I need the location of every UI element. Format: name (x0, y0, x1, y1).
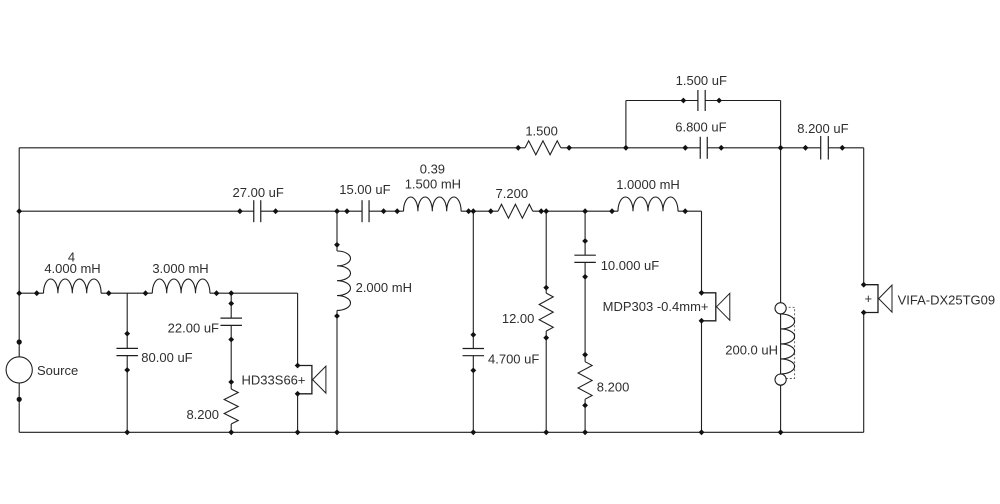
svg-text:2.000 mH: 2.000 mH (356, 280, 412, 295)
svg-text:200.0 uH: 200.0 uH (725, 343, 778, 358)
svg-text:1.0000 mH: 1.0000 mH (616, 177, 680, 192)
svg-text:1.500 uF: 1.500 uF (676, 73, 727, 88)
svg-text:6.800 uF: 6.800 uF (675, 120, 726, 135)
svg-text:15.00 uF: 15.00 uF (339, 182, 390, 197)
svg-text:VIFA-DX25TG09: VIFA-DX25TG09 (898, 293, 996, 308)
svg-text:22.00 uF: 22.00 uF (168, 321, 219, 336)
svg-text:0.39: 0.39 (420, 161, 445, 176)
svg-text:1.500: 1.500 (525, 123, 558, 138)
svg-text:1.500 mH: 1.500 mH (405, 176, 461, 191)
svg-text:7.200: 7.200 (496, 186, 529, 201)
svg-text:4.700 uF: 4.700 uF (488, 351, 539, 366)
svg-text:27.00 uF: 27.00 uF (233, 185, 284, 200)
svg-text:8.200: 8.200 (186, 407, 219, 422)
svg-text:4.000 mH: 4.000 mH (44, 261, 100, 276)
svg-text:12.00: 12.00 (502, 311, 535, 326)
svg-text:8.200: 8.200 (597, 380, 630, 395)
svg-text:HD33S66+: HD33S66+ (242, 373, 306, 388)
svg-text:10.000 uF: 10.000 uF (601, 258, 660, 273)
svg-text:3.000 mH: 3.000 mH (152, 261, 208, 276)
svg-text:Source: Source (37, 363, 78, 378)
svg-text:+: + (865, 291, 873, 306)
svg-text:MDP303 -0.4mm+: MDP303 -0.4mm+ (603, 299, 709, 314)
svg-text:80.00 uF: 80.00 uF (141, 350, 192, 365)
svg-text:8.200 uF: 8.200 uF (797, 121, 848, 136)
